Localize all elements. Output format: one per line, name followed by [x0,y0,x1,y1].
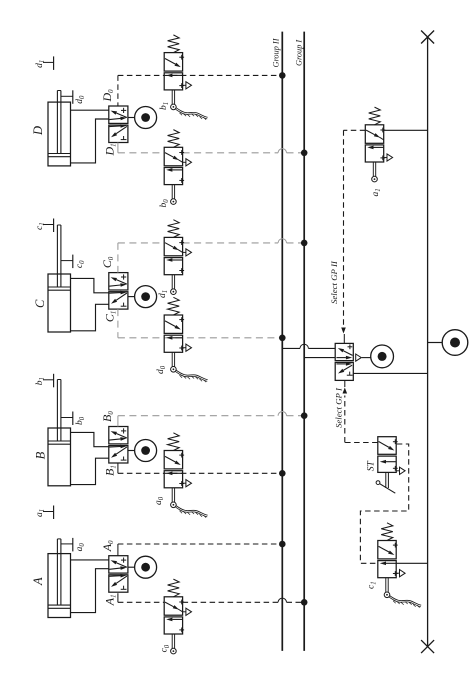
wire ST valve to c1 valve (dashed) [360,444,408,563]
limit valve b0 3/2 roller [159,130,192,208]
bus line Group II [272,32,283,651]
position marker b0 [61,412,86,426]
valve C 5/2 double-pilot [100,256,157,322]
wire c1 valve to supply [396,562,427,564]
supply manifold line [427,37,429,647]
valve B 5/2 double-pilot [100,411,157,476]
position marker d1 [35,56,54,70]
svg-text:Select GP II: Select GP II [329,260,339,304]
valve A 5/2 double-pilot [100,540,157,606]
svg-text:C: C [33,299,47,308]
line end X bottom [421,640,434,653]
position marker d0 [61,90,86,104]
svg-text:A: A [31,577,45,586]
wire group valve to Group II [282,344,335,348]
group select valve 4/2 [335,343,393,380]
main air source P [428,330,468,356]
svg-text:D: D [31,126,45,136]
cylinder C [33,225,71,332]
wire work lines cylinder A [71,560,109,613]
pilot line A0 [118,541,286,556]
pilot line A1 [118,593,308,605]
limit valve d1 3/2 roller [158,220,192,298]
wire group valve P to supply [353,372,427,374]
position marker c1 [35,219,54,233]
svg-text:B: B [34,451,48,459]
pilot line D1 [118,143,308,157]
limit valve c1 3/2 roller [367,523,422,608]
cylinder B [34,380,71,486]
bus line Group I [295,32,305,651]
pilot line C1 [118,309,286,341]
position marker a0 [61,538,86,552]
pilot line D0 [118,72,286,106]
position marker a1 [35,506,54,520]
limit valve a0 3/2 roller [154,433,208,518]
limit valve d0 3/2 roller [156,297,208,382]
pilot line Select GP I [334,380,378,442]
limit valve b1 3/2 roller [159,35,208,120]
wire a1 valve to supply [384,129,428,131]
wire group valve to Group I [304,357,335,359]
pilot line B1 [118,463,286,477]
pilot line C0 [118,239,308,273]
limit valve a1 3/2 roller [365,107,392,196]
position marker b1 [35,374,54,388]
pilot line B0 [118,412,308,427]
limit valve c0 3/2 roller [160,579,192,654]
start valve ST 3/2 manual [366,437,405,494]
wire work lines cylinder B [71,432,109,484]
svg-text:Group I: Group I [295,39,304,66]
valve D 5/2 double-pilot [100,89,157,157]
wire work lines cylinder D [71,110,109,163]
svg-text:Group II: Group II [272,37,281,67]
line end X top [421,31,434,44]
svg-text:Select GP I: Select GP I [334,387,344,428]
position marker c0 [61,255,86,269]
pilot line Select GP II [329,130,365,343]
cylinder D [31,91,71,166]
wire work lines cylinder C [71,278,109,330]
svg-text:ST: ST [366,460,376,471]
cylinder A [31,539,71,618]
